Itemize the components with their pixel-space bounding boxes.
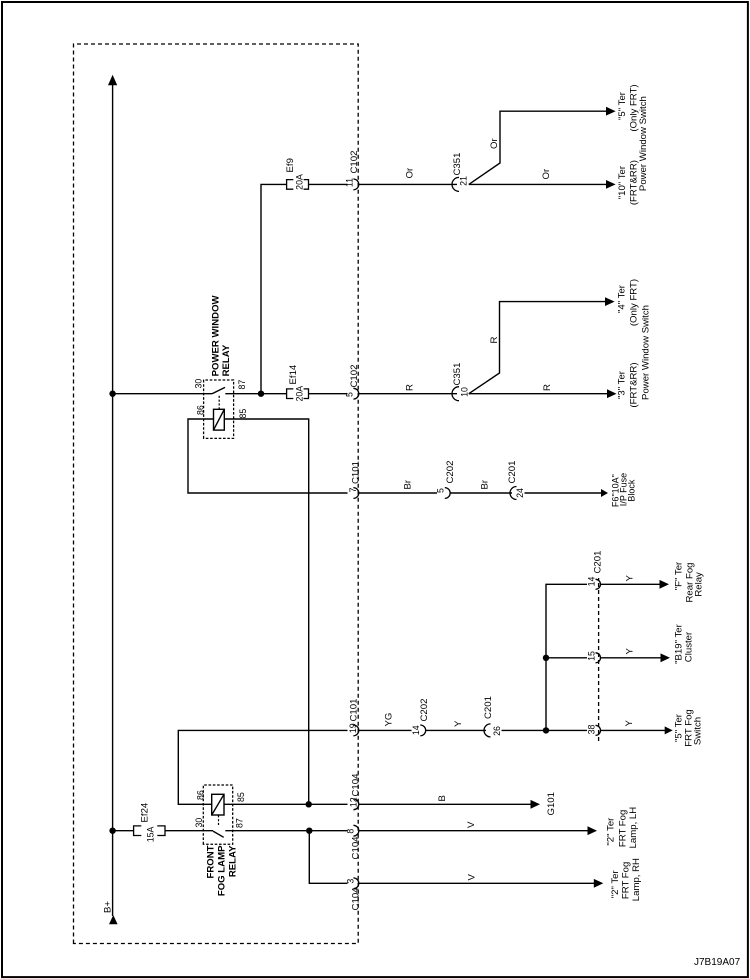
- svg-text:20A: 20A: [295, 174, 305, 190]
- svg-text:"2" Ter: "2" Ter: [610, 870, 621, 899]
- svg-text:14: 14: [411, 725, 421, 735]
- svg-text:19: 19: [348, 723, 358, 733]
- wire C104-12 to ground G101: [359, 803, 532, 805]
- node junction pin87/Ef9 branch: [258, 391, 264, 397]
- wire Ef14 to connector C102 pin 5: [309, 393, 348, 395]
- terminal arrow 2 Ter FRT fog lamp RH: [594, 879, 604, 888]
- svg-text:Switch: Switch: [693, 717, 704, 745]
- wire C104-3 to FRT fog lamp RH arrow: [359, 882, 595, 884]
- terminal arrow 10 Ter: [606, 180, 616, 189]
- svg-text:Ef24: Ef24: [140, 802, 151, 822]
- wire branch to fuse Ef9: [261, 184, 286, 393]
- wire C351-10 to power window switch 3 Ter arrow: [469, 393, 609, 395]
- wire Ef24 to front fog relay pin 30: [165, 830, 213, 832]
- connector C102 pin 5: [353, 388, 358, 399]
- wire C101-7 to connector C202 pin 5: [359, 492, 437, 494]
- svg-text:"2" Ter: "2" Ter: [606, 817, 617, 846]
- svg-text:Block: Block: [627, 479, 637, 502]
- svg-text:C202: C202: [445, 461, 456, 484]
- wire power window relay pin 86: [188, 419, 348, 493]
- svg-text:C102: C102: [349, 365, 360, 388]
- svg-text:15: 15: [587, 651, 597, 661]
- connector C201 pin 26: [484, 724, 491, 737]
- wire rail to power window relay pin 30: [113, 393, 212, 395]
- power window relay coil: [214, 409, 225, 430]
- wire Ef9 to connector C102 pin 11: [309, 183, 348, 185]
- node junction on rail at Ef24 feed: [109, 828, 115, 834]
- svg-text:Y: Y: [625, 575, 636, 582]
- wire C102-5 to connector C351 pin 10: [359, 393, 457, 395]
- wire front fog relay pin 87: [225, 830, 347, 832]
- svg-text:R: R: [489, 337, 500, 344]
- power window relay switch blade: [212, 387, 225, 393]
- svg-text:R: R: [542, 384, 553, 391]
- svg-text:FRONT: FRONT: [206, 845, 217, 878]
- power window relay coil-switch dashed link: [218, 396, 220, 410]
- svg-text:Y: Y: [625, 648, 636, 655]
- svg-text:Or: Or: [405, 167, 416, 178]
- svg-text:FRT Fog: FRT Fog: [618, 810, 629, 848]
- svg-text:Y: Y: [453, 720, 464, 727]
- svg-text:C351: C351: [452, 153, 463, 176]
- svg-text:30: 30: [194, 379, 204, 389]
- svg-text:C351: C351: [452, 363, 463, 386]
- wire C102-11 to connector C351 pin 21: [359, 183, 457, 185]
- terminal arrow F Ter rear fog relay: [660, 580, 670, 589]
- terminal arrow 3 Ter: [607, 389, 617, 398]
- connector C104 pin 12: [353, 799, 358, 810]
- svg-text:B+: B+: [103, 901, 114, 913]
- fuse Ef14 20A: [287, 389, 294, 399]
- front fog relay dashed body: [203, 785, 232, 844]
- svg-text:20A: 20A: [295, 386, 305, 402]
- connector C201 pin 24: [510, 487, 517, 500]
- wire branch to rear fog relay and cluster: [546, 584, 587, 730]
- svg-text:21: 21: [459, 176, 469, 186]
- svg-text:86: 86: [196, 790, 206, 800]
- connector C104 pin 3: [353, 878, 358, 889]
- svg-text:10: 10: [460, 387, 470, 397]
- connector C101 pin 7: [353, 488, 358, 499]
- connector C104 pin 8: [353, 825, 358, 836]
- front fog relay switch blade: [213, 831, 224, 837]
- node junction on rail at power window feed: [109, 391, 115, 397]
- svg-text:RELAY: RELAY: [221, 344, 232, 376]
- svg-text:Br: Br: [403, 479, 414, 489]
- terminal arrow F6 I/P fuse block: [601, 489, 608, 497]
- wire C201-15 to cluster arrow: [601, 657, 662, 659]
- node junction cluster branch: [543, 655, 549, 661]
- wire front fog relay pin 85 to C104 pin 12: [224, 803, 348, 805]
- svg-text:Ef14: Ef14: [288, 364, 299, 384]
- svg-text:"F" Ter: "F" Ter: [674, 561, 685, 590]
- wire C202-5 to connector C201 pin 24: [450, 492, 512, 494]
- wire C351-21 to power window switch 10 Ter arrow: [469, 183, 608, 185]
- wire branch Or to 5 Ter (Only FRT): [469, 111, 608, 184]
- terminal arrow 2 Ter FRT fog lamp LH: [588, 826, 598, 835]
- wire branch to C104 pin 3: [309, 831, 347, 884]
- svg-text:Cluster: Cluster: [684, 631, 695, 662]
- svg-text:Lamp, RH: Lamp, RH: [631, 858, 642, 901]
- connector C351 pin 21: [452, 177, 459, 191]
- svg-text:YG: YG: [384, 713, 395, 727]
- svg-text:C201: C201: [483, 696, 494, 719]
- svg-text:B: B: [437, 795, 448, 801]
- svg-text:POWER WINDOW: POWER WINDOW: [211, 294, 222, 376]
- wire rail to fuse Ef24: [113, 830, 134, 832]
- wire C202-14 to connector C201 pin 26: [426, 729, 486, 731]
- connector C101 pin 19: [353, 725, 358, 736]
- svg-text:38: 38: [587, 725, 597, 735]
- wire C201-38 to FRT fog switch arrow: [601, 729, 666, 731]
- wire front fog relay pin 86 riser: [178, 730, 347, 804]
- B+ supply triangle: [109, 915, 118, 924]
- node junction pin 85 / power window 85: [306, 801, 312, 807]
- svg-text:"10" Ter: "10" Ter: [617, 165, 628, 199]
- svg-text:Lamp, LH: Lamp, LH: [628, 807, 639, 849]
- terminal arrow 5 Ter FRT fog switch: [665, 726, 673, 734]
- svg-text:(Only FRT): (Only FRT): [629, 279, 640, 326]
- svg-text:11: 11: [345, 178, 355, 187]
- svg-text:Or: Or: [541, 168, 552, 179]
- front fog relay coil-switch dashed link: [218, 815, 220, 825]
- power window relay dashed body: [204, 380, 234, 438]
- svg-text:C102: C102: [349, 151, 360, 174]
- svg-text:Ef9: Ef9: [285, 158, 296, 172]
- wire cluster drop: [546, 657, 587, 659]
- fuse Ef9 20A: [287, 180, 294, 190]
- svg-text:C202: C202: [419, 699, 430, 722]
- node junction pin 87 branch to C104-3: [306, 828, 312, 834]
- node junction fog switch branch: [543, 727, 549, 733]
- svg-text:Power Window Switch: Power Window Switch: [641, 305, 652, 400]
- svg-text:5: 5: [436, 488, 446, 493]
- svg-text:5: 5: [345, 392, 355, 397]
- svg-text:26: 26: [492, 726, 502, 736]
- svg-text:7: 7: [348, 487, 358, 492]
- svg-text:C101: C101: [351, 461, 362, 484]
- wire power window relay pin 87 to fuse Ef14: [225, 393, 286, 395]
- svg-text:R: R: [405, 384, 416, 391]
- svg-text:14: 14: [587, 577, 597, 587]
- svg-text:C201: C201: [593, 551, 604, 574]
- connector C351 pin 10: [452, 387, 459, 401]
- wire B+ rail: [112, 84, 114, 916]
- svg-text:G101: G101: [546, 792, 557, 815]
- svg-text:C101: C101: [349, 699, 360, 722]
- svg-text:85: 85: [236, 792, 246, 802]
- terminal arrow 4 Ter: [605, 297, 615, 306]
- svg-text:"3" Ter: "3" Ter: [617, 370, 628, 399]
- svg-text:(FRT&RR): (FRT&RR): [629, 362, 640, 407]
- svg-text:C201: C201: [507, 461, 518, 484]
- svg-text:Y: Y: [624, 720, 635, 727]
- svg-text:C104: C104: [351, 836, 362, 860]
- svg-text:Relay: Relay: [694, 572, 705, 597]
- svg-text:86: 86: [196, 405, 206, 415]
- wire C104-8 to FRT fog lamp LH arrow: [359, 830, 589, 832]
- wire C201-26 to fog switch branch: [502, 729, 588, 731]
- svg-text:FRT Fog: FRT Fog: [621, 862, 632, 900]
- svg-text:87: 87: [237, 380, 247, 390]
- wire C201-14 to rear fog relay arrow: [601, 583, 661, 585]
- svg-text:Br: Br: [480, 479, 491, 489]
- svg-text:87: 87: [235, 818, 245, 828]
- svg-text:24: 24: [515, 488, 525, 498]
- wire branch R to 4 Ter (Only FRT): [469, 302, 607, 394]
- wire C101-19 to connector C202 pin 14: [359, 729, 412, 731]
- svg-text:V: V: [467, 874, 478, 881]
- svg-text:"5" Ter: "5" Ter: [617, 91, 628, 120]
- svg-text:"4" Ter: "4" Ter: [617, 284, 628, 313]
- dashed junction-block boundary box: [74, 44, 359, 944]
- svg-text:RELAY: RELAY: [228, 845, 239, 877]
- svg-text:C104: C104: [351, 773, 362, 797]
- wire power window relay pin 85: [224, 419, 308, 804]
- svg-text:Or: Or: [489, 138, 500, 149]
- terminal arrow B19 Ter cluster: [661, 653, 671, 662]
- svg-text:12: 12: [349, 797, 359, 807]
- svg-text:C104: C104: [351, 887, 362, 911]
- svg-text:85: 85: [238, 409, 248, 419]
- front fog relay coil: [212, 794, 224, 815]
- svg-text:J7B19A07: J7B19A07: [694, 957, 741, 968]
- B+ rail continuation arrowhead: [108, 75, 117, 86]
- fuse Ef24 15A: [134, 826, 142, 836]
- svg-text:30: 30: [194, 818, 204, 828]
- connector C102 pin 11: [353, 179, 358, 190]
- svg-text:15A: 15A: [146, 826, 156, 842]
- connector C201 dashed line: [598, 578, 600, 741]
- svg-text:FOG LAMP: FOG LAMP: [217, 845, 228, 896]
- svg-text:V: V: [466, 821, 477, 828]
- wire C201-24 to I/P fuse block arrow: [525, 492, 603, 494]
- svg-text:Power Window Switch: Power Window Switch: [638, 96, 649, 191]
- terminal arrow 5 Ter only FRT: [606, 107, 616, 116]
- ground arrow G101: [531, 800, 541, 809]
